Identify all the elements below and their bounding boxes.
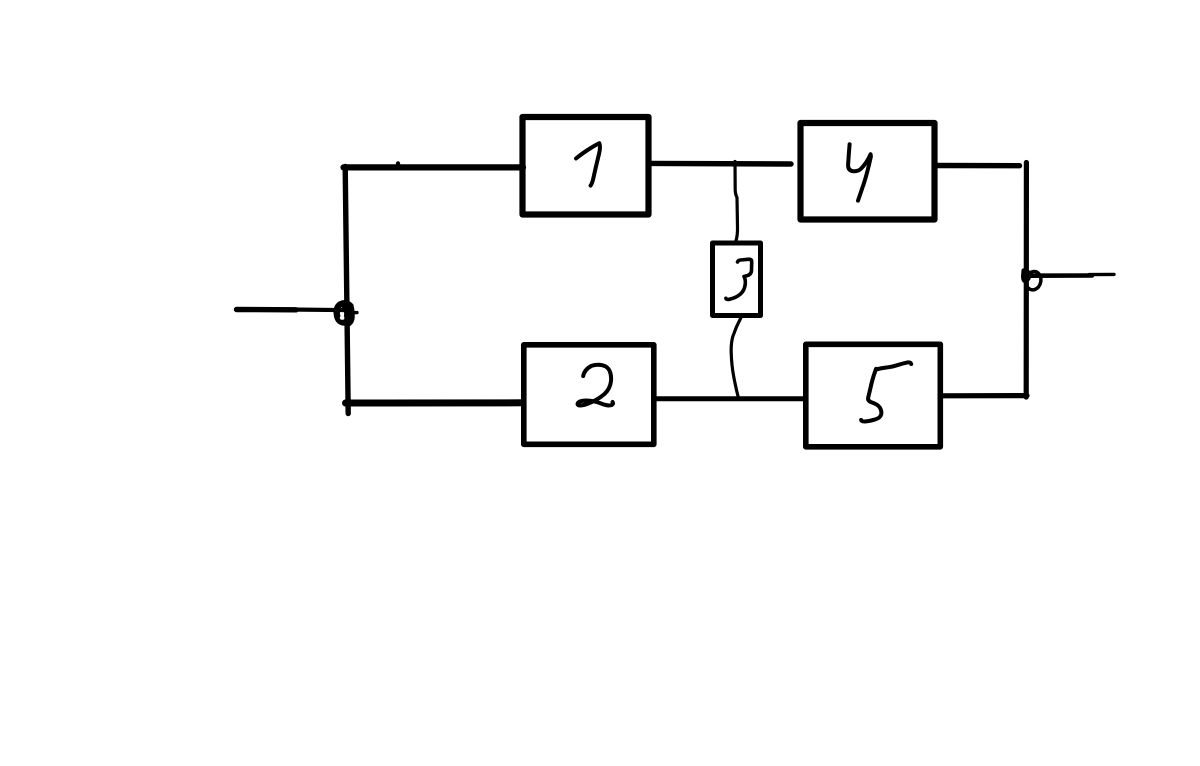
- output wire: [1031, 273, 1092, 278]
- wire block2 to block5: [655, 396, 805, 401]
- wire bottom horizontal left: [346, 399, 524, 406]
- dot on top wire: [396, 161, 400, 165]
- wire top horizontal: [344, 164, 524, 170]
- block 5: [806, 344, 941, 447]
- block 2: [524, 345, 654, 445]
- wire block1 to block4: [650, 161, 791, 167]
- wire left vertical: [345, 167, 348, 414]
- label 2: [578, 365, 613, 406]
- block 4: [801, 123, 935, 220]
- input wire: [237, 307, 297, 313]
- wire block5 to right bus: [940, 393, 1027, 398]
- node b: [1023, 270, 1041, 290]
- block 3: [713, 243, 761, 316]
- node a: [337, 303, 357, 323]
- wavy wire junction to block 3: [735, 162, 738, 242]
- label 3: [726, 259, 752, 299]
- wavy wire block 3 to bottom wire: [731, 318, 741, 400]
- wire right vertical: [1024, 163, 1029, 398]
- label 5: [861, 369, 881, 422]
- wire block4 to right bus: [936, 163, 1020, 169]
- label 1: [576, 143, 600, 185]
- label 4: [848, 144, 871, 200]
- block 1: [523, 117, 649, 215]
